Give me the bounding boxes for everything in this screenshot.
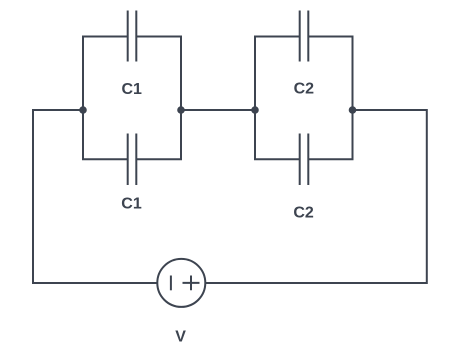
wire: bottom-right segment + right outer branch (V plus terminal to node D) [205, 110, 427, 283]
junction node D (352.5,110) [349, 106, 357, 114]
junction node B (181,110) [177, 106, 185, 114]
wire: C1 loop left half (top edge, left edge, bottom edge) [83, 37, 128, 160]
capacitor C2 (top) plates [300, 11, 309, 62]
capacitor C1 (top) plates [128, 11, 137, 62]
voltage source V body [157, 259, 205, 307]
voltage source V plus terminal mark [183, 276, 200, 291]
svg-text:C2: C2 [294, 80, 315, 97]
wire: C1 loop right half (top edge, right edge, bottom edge) [136, 37, 181, 160]
wire: middle bus node B to node C [181, 109, 255, 111]
capacitor C2 (bottom) plates [300, 134, 309, 186]
wire: C2 loop left half (top edge, left edge, bottom edge) [255, 37, 300, 160]
wire: left outer branch + bottom-left segment (node A to V minus terminal) [33, 110, 158, 283]
svg-text:C2: C2 [293, 205, 314, 222]
junction node C (255,110) [251, 106, 259, 114]
junction node A (left, 83,110) [79, 106, 87, 114]
svg-text:V: V [175, 328, 186, 345]
wire: C2 loop right half (top edge, right edge, bottom edge) [308, 37, 352, 160]
svg-text:C1: C1 [121, 195, 142, 212]
svg-text:C1: C1 [121, 81, 142, 98]
capacitor C1 (bottom) plates [128, 134, 137, 186]
voltage source V minus terminal mark [170, 276, 172, 291]
